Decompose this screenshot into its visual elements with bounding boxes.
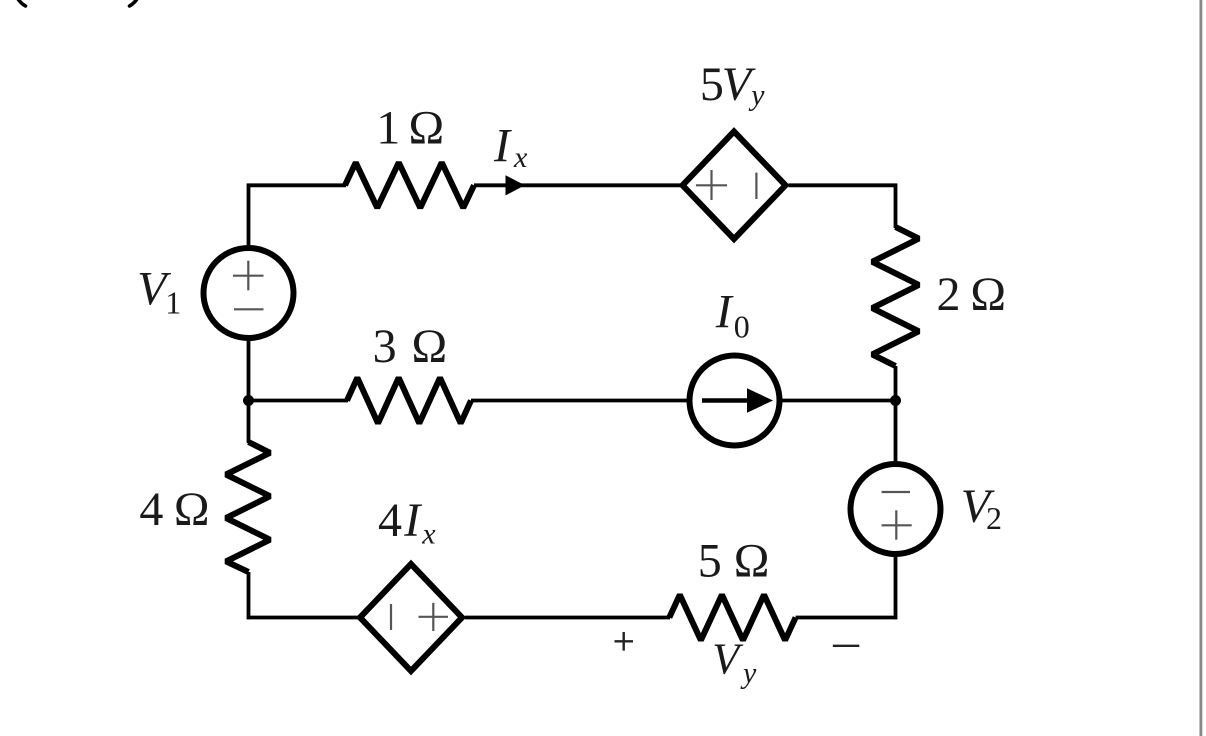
wire 4ohm to bottom	[247, 572, 251, 619]
svg-text:Ω: Ω	[174, 483, 210, 536]
wire right rail upper	[894, 184, 898, 228]
svg-text:y: y	[740, 657, 757, 690]
I0 arrow	[702, 398, 752, 403]
svg-text:Ω: Ω	[734, 535, 770, 588]
V1 plus sign	[233, 275, 264, 277]
svg-text:x: x	[513, 141, 528, 174]
svg-text:Ω: Ω	[970, 268, 1006, 321]
wire bottom left horizontal	[247, 616, 358, 620]
svg-text:0: 0	[734, 308, 750, 344]
wire top-left vertical	[247, 184, 251, 247]
resistor R 5ohm zigzag	[669, 595, 795, 641]
current arrow Ix	[506, 175, 525, 195]
wire right rail to node	[894, 366, 898, 462]
voltage source V1 circle	[204, 248, 294, 338]
minus bar inside 4Ix	[390, 604, 392, 630]
resistor R 4ohm zigzag	[226, 442, 270, 572]
V2 minus sign	[882, 491, 910, 493]
svg-text:y: y	[748, 79, 765, 112]
cropped parenthesis left	[17, 0, 26, 6]
svg-text:1: 1	[376, 102, 400, 155]
wire top left horizontal	[247, 183, 346, 187]
wire top right horizontal	[789, 183, 898, 187]
wire bottom right vertical	[894, 556, 898, 619]
svg-text:I: I	[493, 120, 512, 173]
wire middle right	[782, 399, 896, 403]
resistor R 1ohm zigzag	[345, 163, 474, 208]
resistor R 3ohm zigzag	[347, 378, 471, 424]
svg-text:5: 5	[698, 535, 722, 588]
svg-text:3: 3	[373, 320, 397, 373]
svg-text:2: 2	[937, 268, 961, 321]
node B dot	[890, 395, 901, 406]
voltage source V2 circle	[851, 464, 941, 554]
cropped parenthesis right	[130, 0, 139, 6]
svg-text:I: I	[403, 494, 422, 547]
svg-text:2: 2	[986, 500, 1002, 536]
svg-text:4: 4	[378, 494, 402, 547]
wire bottom middle	[465, 616, 670, 620]
minus label for Vy	[833, 645, 860, 647]
node A dot	[243, 395, 254, 406]
svg-text:I: I	[715, 286, 734, 339]
plus label for Vy	[615, 640, 634, 642]
svg-text:Ω: Ω	[409, 102, 445, 155]
wire V1 bottom to node A	[247, 339, 251, 402]
plus sign inside 5Vy	[696, 184, 727, 186]
wire bottom right	[796, 616, 898, 620]
plus sign inside 4Ix	[419, 616, 449, 618]
V2 plus sign	[882, 524, 912, 526]
page edge line right	[1199, 0, 1200, 736]
minus bar inside 5Vy	[755, 173, 757, 199]
svg-text:Ω: Ω	[412, 320, 448, 373]
svg-text:5: 5	[700, 58, 724, 111]
wire middle from node A	[249, 399, 349, 403]
wire node A down	[247, 401, 251, 444]
current source I0 circle	[690, 356, 780, 446]
V1 minus sign	[234, 308, 264, 310]
wire middle to I0	[471, 399, 688, 403]
wire after 1ohm	[474, 183, 681, 187]
svg-text:4: 4	[139, 483, 163, 536]
dependent source 4Ix diamond	[360, 564, 462, 671]
resistor R 2ohm zigzag	[872, 227, 919, 366]
svg-text:x: x	[421, 517, 436, 550]
dependent source 5Vy diamond	[683, 132, 786, 240]
svg-text:1: 1	[165, 285, 181, 321]
